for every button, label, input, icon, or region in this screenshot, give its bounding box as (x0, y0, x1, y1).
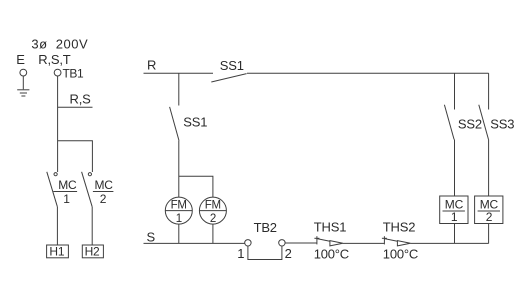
label 3-phase 200V (31, 37, 88, 52)
label MC2 (95, 178, 114, 192)
wire SS1 to FM split (178, 141, 180, 198)
svg-text:2: 2 (100, 192, 107, 206)
svg-text:E: E (16, 52, 25, 67)
terminal TB2-2 (279, 240, 285, 246)
wire split to MC2 branch (58, 141, 93, 172)
label S (147, 230, 156, 245)
wire TB2 to THS1 (285, 242, 317, 244)
svg-text:1: 1 (237, 246, 244, 261)
svg-text:R: R (147, 58, 156, 73)
svg-text:SS1: SS1 (183, 114, 207, 129)
wire TB1 down (57, 76, 59, 172)
label 100C (1) (314, 246, 349, 261)
svg-text:S: S (147, 230, 156, 245)
terminal E (20, 69, 27, 76)
svg-text:SS1: SS1 (220, 58, 244, 73)
svg-text:TB2: TB2 (254, 220, 277, 235)
label R,S (70, 92, 92, 107)
svg-text:2: 2 (285, 246, 292, 261)
wire FM1 to S bus (178, 224, 180, 243)
svg-text:SS2: SS2 (458, 117, 482, 132)
coil MC2 (475, 196, 503, 224)
switch SS2 (444, 105, 454, 140)
wire S bus (144, 242, 245, 244)
svg-text:MC: MC (95, 178, 114, 192)
wire SS2 upper (454, 73, 456, 109)
wire MC2 to H2 (91, 207, 93, 245)
label SS2 (458, 117, 482, 132)
terminal TB2-1 (245, 240, 251, 246)
svg-text:100°C: 100°C (314, 246, 349, 261)
label SS1 top (220, 58, 244, 73)
svg-text:MC: MC (58, 178, 77, 192)
label TB1 (63, 67, 85, 81)
label THS2 (383, 219, 415, 234)
label TB2 (254, 220, 277, 235)
svg-text:THS2: THS2 (383, 219, 415, 234)
motor FM2 (199, 197, 226, 225)
thermal switch THS2 (382, 236, 411, 246)
svg-text:SS3: SS3 (490, 117, 514, 132)
svg-text:1: 1 (176, 213, 182, 225)
wire coil MC2 down (488, 224, 490, 244)
wire coil MC1 down (454, 224, 456, 244)
svg-text:R,S: R,S (70, 92, 92, 107)
wire R bus left (144, 72, 214, 74)
wire SS3 to coil MC2 (488, 140, 490, 197)
terminal TB1 (54, 69, 61, 76)
label R (147, 58, 156, 73)
coil MC1 (440, 196, 468, 224)
switch SS3 (479, 105, 489, 140)
switch SS1 (vertical) (170, 107, 179, 141)
wire R,S stub (58, 106, 93, 108)
wire MC1 to H1 (56, 207, 58, 245)
svg-text:1: 1 (63, 192, 70, 206)
wire SS3 upper (488, 73, 490, 109)
svg-text:H2: H2 (85, 245, 100, 259)
label MC1 (58, 178, 77, 192)
motor FM1 (165, 197, 192, 225)
wire FM2 to S bus (212, 224, 214, 243)
label THS1 (314, 219, 346, 234)
svg-text:R,S,T: R,S,T (38, 52, 70, 67)
jumper TB2 (248, 246, 282, 260)
svg-text:100°C: 100°C (383, 246, 418, 261)
switch SS1 (horizontal) (211, 74, 246, 82)
svg-text:3ø 200V: 3ø 200V (31, 37, 88, 52)
svg-text:H1: H1 (49, 245, 64, 259)
wire FM split (179, 176, 213, 197)
ground (17, 76, 29, 96)
svg-text:1: 1 (451, 210, 458, 224)
svg-text:2: 2 (486, 210, 493, 224)
label 1 (237, 246, 244, 261)
lamp H2 (82, 245, 103, 259)
lamp H1 (47, 245, 69, 259)
svg-text:2: 2 (210, 213, 216, 225)
wire THS1 to THS2 (343, 242, 385, 244)
wire THS2 to coils (410, 242, 488, 244)
wire R bus right (247, 72, 489, 74)
label E (16, 52, 25, 67)
wire tap to SS1 vertical (178, 73, 180, 105)
label R,S,T (38, 52, 70, 67)
svg-text:THS1: THS1 (314, 219, 346, 234)
label 100C (2) (383, 246, 418, 261)
contact MC1 (47, 172, 58, 207)
label SS1 vertical (183, 114, 207, 129)
thermal switch THS1 (314, 236, 343, 246)
label SS3 (490, 117, 514, 132)
wire SS2 to coil MC1 (454, 140, 456, 197)
svg-text:TB1: TB1 (63, 67, 85, 81)
svg-text:FM: FM (205, 199, 221, 211)
label 2 (285, 246, 292, 261)
svg-text:FM: FM (171, 199, 187, 211)
contact MC2 (82, 172, 93, 207)
